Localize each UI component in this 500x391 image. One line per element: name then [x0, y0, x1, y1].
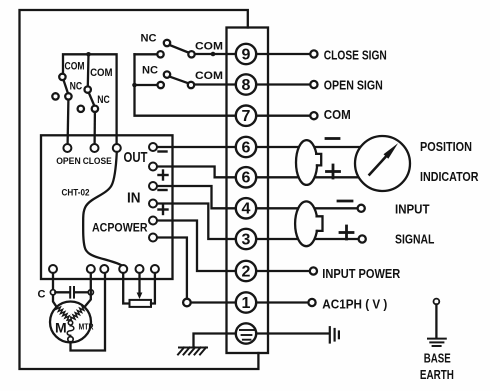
wire terminal 3 to input plus [268, 238, 359, 240]
wire terminal 6 to meter [268, 146, 364, 148]
switch SW1 blade [64, 80, 69, 93]
motor winding left [56, 307, 70, 321]
right stub wire AC1PH [268, 301, 308, 303]
right stub wire INPUT POWER [268, 270, 310, 272]
wire common bus drop to SW2 [87, 54, 90, 86]
capacitor node b [88, 290, 93, 295]
plug connector P1 [296, 140, 321, 185]
terminal 6b [236, 167, 256, 187]
junction dot node [86, 52, 91, 57]
position indicator meter M1 [355, 136, 410, 191]
svg-text:6: 6 [242, 139, 251, 156]
switch SW1 NO contact [52, 93, 58, 99]
svg-text:NC: NC [97, 94, 110, 106]
svg-text:OUT: OUT [124, 149, 148, 166]
svg-text:SIGNAL: SIGNAL [395, 232, 434, 247]
svg-text:AC1PH ( V ): AC1PH ( V ) [322, 297, 387, 312]
plus sign OUT [159, 171, 168, 180]
input minus stub circle [358, 205, 365, 212]
box terminal OPEN [63, 144, 71, 152]
svg-text:COM: COM [65, 61, 85, 73]
terminal 4 [236, 198, 256, 218]
internal curvy wire [83, 152, 121, 265]
svg-text:C: C [38, 289, 46, 301]
minus sign OUT [159, 150, 167, 152]
svg-text:IN: IN [127, 190, 141, 207]
wire IN+ to terminal 3 [157, 204, 268, 240]
SW4 COM contact [188, 82, 194, 88]
box right terminal OUT- [149, 143, 157, 151]
right stub wire CLOSE SIGN [268, 53, 310, 55]
capacitor node a [50, 290, 55, 295]
svg-text:ACPOWER: ACPOWER [92, 221, 148, 235]
wire OUT+ to terminal 6b [157, 167, 268, 178]
box bottom terminal 4 [119, 265, 127, 273]
svg-text:CLOSE SIGN: CLOSE SIGN [324, 48, 387, 63]
wire ACPOWER1 to terminal 2 [157, 221, 268, 272]
switch SW2 NC contact [92, 106, 98, 112]
component text labels [322, 48, 479, 382]
terminal 3 [236, 229, 256, 249]
wire terminal2 to motor [85, 273, 91, 307]
svg-text:6: 6 [242, 170, 251, 187]
wire earth terminal row right [268, 332, 329, 334]
box bottom terminal 2 [87, 265, 95, 273]
box bottom terminal 6 [151, 265, 159, 273]
wire SW1 to OPEN terminal [66, 100, 69, 144]
SW4 hinge contact [158, 82, 164, 88]
SW3 NC contact [164, 40, 170, 46]
svg-text:M: M [55, 320, 67, 336]
switch SW1 OPEN: common contact [59, 74, 65, 80]
potentiometer wiper wire [138, 273, 140, 294]
wire earth terminal row left [194, 334, 269, 348]
wire IN- to terminal 4 [157, 186, 268, 208]
switch SW3 (to terminal 9): left wire [135, 53, 158, 55]
wire row terminal 8 from switch SW4 [194, 83, 268, 85]
potentiometer body [130, 300, 152, 307]
plus sign IN [159, 205, 168, 214]
wire node to terminal 1 [191, 301, 268, 303]
switch SW4 (to terminal 8): left wire [135, 84, 158, 86]
base earth symbol [428, 339, 446, 346]
box bottom terminal 3 [100, 265, 108, 273]
outer enclosure frame [20, 10, 259, 369]
potentiometer wiper arrowhead [137, 293, 143, 300]
junction dot node [132, 83, 137, 88]
wire terminal4 to potentiometer left [123, 273, 128, 304]
minus sign P2 [338, 200, 352, 203]
svg-text:POSITION: POSITION [420, 139, 472, 154]
svg-text:CHT-02: CHT-02 [62, 188, 90, 199]
wire OPEN/CLOSE switch common bus [63, 54, 117, 144]
meter needle arrowhead [384, 143, 399, 159]
switch SW2 blade [89, 93, 95, 106]
box right terminal ACPOWER1 [149, 217, 157, 225]
wire motor bottom loop to terminal3 [71, 273, 106, 351]
box terminal CLOSE [91, 144, 99, 152]
terminal strip box [227, 28, 269, 354]
box terminal common [113, 144, 121, 152]
motor center node [68, 321, 72, 325]
box right terminal IN- [149, 182, 157, 190]
switch SW1 NC contact [65, 93, 71, 99]
wire terminal 6b to meter [268, 176, 360, 178]
capacitor C lead left [55, 291, 69, 293]
svg-text:INPUT POWER: INPUT POWER [322, 266, 401, 281]
motor M body [50, 302, 91, 343]
svg-text:2: 2 [242, 263, 251, 280]
SW4 NC contact [164, 71, 170, 77]
box bottom terminal 5 [136, 265, 144, 273]
svg-text:COM: COM [324, 107, 351, 122]
input plus stub circle [359, 235, 366, 242]
capacitor C lead right [75, 291, 88, 293]
svg-text:7: 7 [242, 108, 251, 125]
svg-text:NC: NC [141, 33, 157, 45]
terminal circles [236, 44, 256, 344]
wire terminal6 to potentiometer right [151, 273, 155, 304]
svg-text:9: 9 [242, 46, 251, 63]
plus sign P2 [340, 226, 353, 239]
right stub wire COM [268, 115, 310, 117]
svg-text:1: 1 [242, 295, 251, 312]
box right terminal ACPOWER2 [149, 234, 157, 242]
svg-text:OPEN SIGN: OPEN SIGN [324, 78, 383, 93]
terminal 1 [236, 292, 256, 312]
terminal 6 [236, 137, 256, 157]
plug connector P2 [295, 201, 322, 246]
junction dot node [211, 52, 216, 57]
motor winding right [71, 306, 85, 320]
node connector circle [183, 299, 191, 307]
wire terminal 4 to input minus [268, 207, 358, 209]
svg-text:BASE: BASE [424, 351, 451, 366]
svg-text:COM: COM [195, 41, 223, 53]
wire OUT- to terminal 6 [157, 146, 268, 148]
svg-text:MTR: MTR [79, 323, 94, 332]
svg-text:NC: NC [142, 65, 158, 77]
wire SW2 to CLOSE terminal [93, 112, 96, 144]
svg-text:3: 3 [242, 231, 251, 248]
box right terminal IN+ [149, 200, 157, 208]
svg-text:OPEN: OPEN [56, 156, 80, 166]
terminal 7 [236, 106, 256, 126]
SW4 blade [170, 77, 189, 84]
earth terminal [236, 323, 256, 343]
minus sign P1 [326, 137, 339, 140]
line earth symbol bars [330, 327, 339, 342]
svg-text:INPUT: INPUT [395, 201, 430, 216]
wire terminal1 to capacitor/motor [53, 273, 57, 307]
SW3 COM contact [188, 51, 194, 57]
svg-text:CLOSE: CLOSE [83, 156, 112, 166]
meter needle [370, 157, 387, 175]
terminal number labels [242, 46, 251, 312]
switch SW2 NO contact [78, 106, 84, 112]
SW3 blade [170, 45, 189, 53]
motor lower node [68, 337, 73, 342]
plus sign P1 [327, 165, 340, 178]
chassis ground hatch [178, 348, 207, 355]
controller box CHT-02 [41, 135, 173, 279]
terminal 9 [236, 44, 256, 64]
svg-text:4: 4 [242, 201, 251, 218]
SW3 hinge contact [157, 51, 163, 57]
capacitor C plates [70, 287, 74, 298]
terminal 2 [236, 261, 256, 281]
wire row terminal 9 from switch SW3 [195, 53, 269, 55]
svg-text:COM: COM [195, 70, 223, 82]
right stub wire OPEN SIGN [268, 83, 310, 85]
motor rotor squiggle [67, 326, 74, 336]
base earth stem circle [434, 299, 440, 305]
wire common of SW3/SW4 to terminal 7 [135, 54, 269, 115]
minus sign IN [159, 189, 167, 191]
terminal 8 [236, 74, 256, 94]
svg-text:INDICATOR: INDICATOR [420, 169, 479, 184]
svg-text:EARTH: EARTH [420, 367, 454, 382]
svg-text:COM: COM [90, 67, 113, 79]
base earth stem wire [435, 304, 437, 338]
svg-text:NC: NC [70, 80, 83, 92]
earth terminal symbol [239, 330, 255, 340]
box right terminal OUT+ [149, 163, 157, 171]
svg-text:8: 8 [242, 77, 251, 94]
wire ACPOWER2 to node then terminal 1 [157, 238, 187, 299]
box bottom terminal 1 [49, 265, 57, 273]
switch SW2 CLOSE: common contact [85, 86, 91, 92]
